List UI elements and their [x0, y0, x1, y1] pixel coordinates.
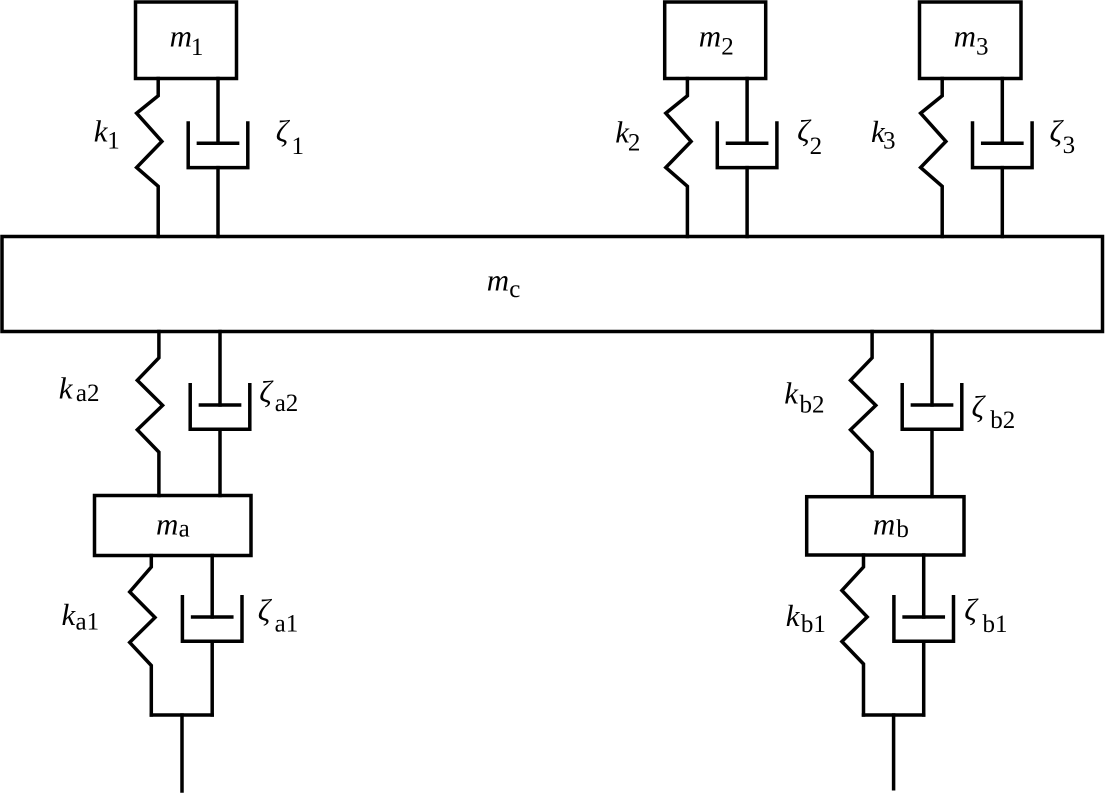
svg-text:b1: b1 — [801, 611, 826, 638]
label zb1 — [964, 592, 1007, 638]
mass m3 box — [920, 2, 1022, 79]
spring k3 — [921, 79, 946, 237]
svg-text:a: a — [179, 515, 190, 542]
damper Za1 — [182, 556, 242, 716]
svg-text:c: c — [509, 276, 520, 303]
damper Zb2 — [902, 332, 962, 497]
svg-text:b: b — [896, 516, 909, 543]
label k2 — [615, 114, 640, 156]
spring ka1 — [130, 556, 155, 716]
wire ground link b — [864, 715, 924, 789]
svg-text:3: 3 — [883, 127, 896, 154]
label zb2 — [972, 389, 1016, 434]
label m1 — [170, 18, 204, 61]
label z2 — [797, 113, 822, 160]
svg-text:k: k — [786, 598, 801, 633]
damper Z2 — [717, 79, 777, 237]
spring ka2 — [137, 332, 162, 496]
svg-text:1: 1 — [292, 133, 305, 160]
svg-text:b2: b2 — [800, 392, 825, 419]
label mc — [487, 263, 521, 304]
svg-text:ζ: ζ — [276, 113, 291, 148]
label z3 — [1050, 114, 1076, 160]
svg-text:ζ: ζ — [972, 389, 987, 424]
wire ground link a — [151, 715, 212, 791]
damper Z3 — [973, 79, 1033, 237]
svg-text:2: 2 — [810, 133, 823, 160]
spring k1 — [137, 79, 162, 237]
svg-text:k: k — [784, 375, 799, 410]
damper Za2 — [190, 332, 250, 496]
mass mc bar — [2, 237, 1103, 332]
svg-text:m: m — [156, 506, 178, 541]
spring kb2 — [851, 332, 876, 497]
svg-text:k: k — [59, 370, 74, 405]
mass ma box — [95, 496, 252, 556]
svg-text:3: 3 — [976, 34, 989, 61]
label m3 — [954, 18, 989, 60]
svg-text:k: k — [62, 597, 77, 632]
damper Z1 — [188, 79, 248, 237]
label za1 — [258, 592, 298, 637]
svg-text:b1: b1 — [983, 611, 1008, 638]
svg-text:m: m — [954, 18, 976, 53]
label z1 — [276, 113, 304, 160]
label kb1 — [786, 598, 826, 638]
spring kb1 — [842, 555, 867, 715]
svg-text:m: m — [487, 263, 509, 298]
label ma — [156, 506, 190, 542]
damper Zb1 — [894, 555, 954, 715]
label ka1 — [62, 597, 100, 636]
svg-text:b2: b2 — [990, 407, 1015, 434]
mass m1 box — [136, 2, 237, 79]
svg-text:2: 2 — [628, 129, 641, 156]
mass m2 box — [665, 2, 766, 79]
label za2 — [259, 374, 298, 417]
svg-text:ζ: ζ — [259, 374, 274, 409]
label k1 — [94, 113, 120, 154]
svg-text:1: 1 — [191, 34, 204, 61]
svg-text:ζ: ζ — [258, 592, 273, 627]
svg-text:2: 2 — [721, 34, 734, 61]
svg-text:a2: a2 — [275, 390, 299, 417]
svg-text:ζ: ζ — [964, 592, 979, 627]
label m2 — [699, 18, 734, 60]
svg-text:1: 1 — [107, 128, 120, 155]
label ka2 — [59, 370, 100, 407]
svg-text:a1: a1 — [76, 608, 100, 635]
mass mb box — [807, 497, 964, 555]
svg-text:m: m — [170, 18, 192, 53]
label mb — [873, 506, 909, 543]
spring k2 — [666, 79, 691, 237]
svg-text:m: m — [699, 18, 721, 53]
svg-text:a2: a2 — [76, 380, 100, 407]
label kb2 — [784, 375, 824, 418]
svg-text:3: 3 — [1063, 132, 1076, 159]
svg-text:m: m — [873, 506, 895, 541]
svg-text:a1: a1 — [275, 611, 299, 638]
label k3 — [871, 114, 896, 154]
